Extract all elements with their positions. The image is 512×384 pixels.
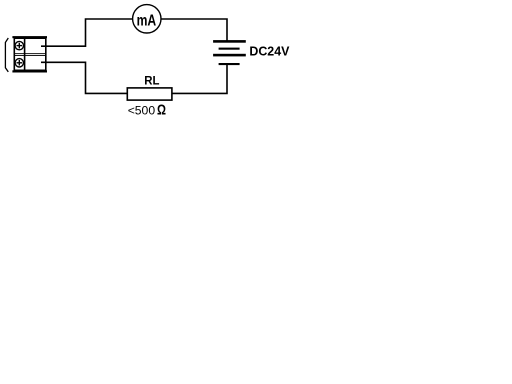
wire: top rail right segment to battery top lead: [161, 19, 227, 41]
wire: bottom rail left segment to terminal 2: [41, 62, 127, 93]
svg-text:DC24V: DC24V: [249, 44, 289, 59]
terminal block TB1 bracket: [5, 38, 8, 72]
ammeter M1: [133, 5, 161, 33]
svg-text:<500: <500: [128, 104, 156, 118]
battery BT1 plate 2 (short): [219, 48, 240, 50]
screw terminal 2: [15, 59, 23, 67]
wire: battery bottom lead to bottom rail right segment: [172, 65, 227, 93]
terminal block TB1 bottom flange: [12, 70, 47, 72]
battery BT1 plate 3 (long): [213, 54, 246, 57]
terminal block TB1 body: [14, 38, 46, 70]
resistor RL body: [127, 88, 172, 100]
screw terminal 1: [15, 41, 23, 49]
terminal block TB1 screw column divider: [24, 38, 26, 70]
battery BT1 plate 1 (long): [213, 40, 246, 43]
battery BT1 plate 4 (short): [219, 63, 240, 65]
wire: terminal 1 to top rail: [41, 19, 133, 46]
svg-text:mA: mA: [137, 12, 157, 29]
svg-text:RL: RL: [144, 75, 159, 88]
terminal block TB1 top flange: [12, 36, 47, 38]
terminal block TB1 cell divider (double line): [14, 52, 46, 55]
svg-text:Ω: Ω: [157, 103, 166, 119]
